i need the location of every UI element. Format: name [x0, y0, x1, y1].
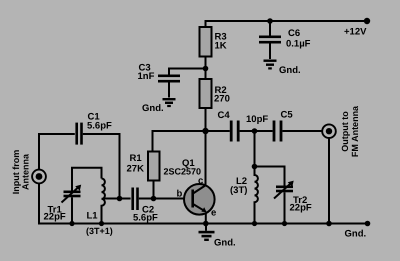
svg-text:Gnd.: Gnd.: [214, 238, 236, 249]
svg-text:22pF: 22pF: [44, 212, 66, 223]
wire tank2 top: [255, 167, 285, 186]
svg-text:10pF: 10pF: [246, 114, 268, 125]
node collector/R2/C4 junction: [202, 128, 208, 134]
connector output jack: [322, 124, 336, 138]
capacitor C5: [273, 121, 283, 142]
trimmer Tr1: [62, 185, 82, 224]
node R1/base junction: [151, 196, 157, 202]
wire tank1 top: [72, 168, 102, 191]
node C6 junction on rail: [267, 18, 273, 24]
svg-text:C4: C4: [218, 110, 231, 121]
wire bottom ground rail: [38, 223, 368, 225]
svg-text:+12V: +12V: [344, 27, 367, 38]
node R3/R2/C3 junction: [203, 66, 209, 72]
capacitor C3: [158, 75, 180, 98]
node +12V endpoint dot: [364, 18, 370, 24]
svg-text:Gnd.: Gnd.: [345, 229, 367, 240]
node L1/rail junction: [99, 221, 104, 226]
svg-text:5.6pF: 5.6pF: [133, 213, 158, 224]
svg-text:R1: R1: [130, 153, 143, 164]
ground Q1 emitter: [199, 224, 215, 242]
wire output connector down to rail: [328, 138, 330, 224]
svg-text:2SC2570: 2SC2570: [164, 167, 202, 177]
resistor R2: [200, 79, 212, 108]
svg-text:270: 270: [214, 94, 230, 105]
svg-text:(3T+1): (3T+1): [86, 226, 113, 236]
wire C5 to output connector: [282, 130, 322, 132]
wire collector up: [205, 131, 207, 186]
connector input jack: [32, 170, 46, 184]
node tank2 top junction: [252, 164, 258, 170]
svg-text:Gnd.: Gnd.: [142, 103, 164, 114]
wire top rail +12V: [206, 21, 368, 27]
svg-text:C5: C5: [281, 110, 294, 121]
svg-text:22pF: 22pF: [290, 203, 312, 214]
wire R1 bottom to base rail: [153, 181, 155, 199]
ground C3: [163, 98, 176, 107]
svg-text:c: c: [198, 176, 203, 187]
resistor R3: [200, 27, 212, 57]
node output/rail junction: [326, 221, 332, 227]
wire C1 right to down-drop: [83, 134, 120, 199]
node L2/rail junction: [252, 221, 257, 226]
node ground rail end dot: [365, 221, 371, 227]
wire input riser: [39, 134, 75, 170]
capacitor C4: [230, 121, 240, 142]
wire emitter down: [205, 213, 207, 224]
svg-text:1nF: 1nF: [138, 71, 155, 82]
wire R3 to R2: [205, 57, 207, 80]
node Tr2/rail junction: [282, 221, 287, 226]
wire L1 tap to C2: [104, 198, 131, 200]
wire C4 to C5: [240, 130, 273, 132]
svg-text:e: e: [211, 208, 216, 219]
svg-text:L1: L1: [87, 211, 99, 222]
inductor L2: [255, 167, 258, 224]
resistor R1: [148, 152, 160, 181]
svg-text:Antenna: Antenna: [21, 153, 31, 190]
svg-text:Output to: Output to: [340, 111, 350, 152]
inductor L1: [102, 179, 105, 224]
svg-text:FM Antenna: FM Antenna: [350, 105, 360, 157]
wire mid rail left to R1: [153, 131, 206, 152]
trimmer Tr2: [274, 181, 294, 224]
wire mid rail right to C4: [206, 130, 230, 132]
wire C4/C5 junction down to tank2: [254, 131, 256, 167]
svg-text:(3T): (3T): [230, 185, 247, 196]
svg-text:5.6pF: 5.6pF: [87, 121, 112, 132]
node emitter/rail junction: [203, 221, 209, 227]
capacitor C1: [75, 123, 82, 145]
svg-text:C6: C6: [288, 28, 300, 39]
wire C3 branch: [169, 69, 206, 75]
svg-text:27K: 27K: [127, 164, 145, 175]
svg-text:1K: 1K: [215, 41, 227, 52]
capacitor C2: [131, 188, 138, 211]
transistor Q1: [184, 184, 215, 215]
ground C6: [264, 60, 277, 70]
wire R2 bottom to mid rail: [205, 108, 207, 131]
wire input connector down to ground rail: [38, 183, 40, 223]
wire C6 top lead: [269, 21, 271, 36]
node Tr1/rail junction: [69, 221, 74, 226]
svg-text:b: b: [177, 189, 183, 200]
svg-text:Gnd.: Gnd.: [279, 65, 301, 76]
wire C2 to base: [139, 198, 193, 200]
node C4/C5 junction: [252, 128, 258, 134]
svg-text:Input from: Input from: [11, 150, 21, 195]
node C1/tap/C2 junction: [117, 196, 123, 202]
capacitor C6: [259, 36, 281, 60]
svg-text:0.1µF: 0.1µF: [286, 39, 311, 50]
